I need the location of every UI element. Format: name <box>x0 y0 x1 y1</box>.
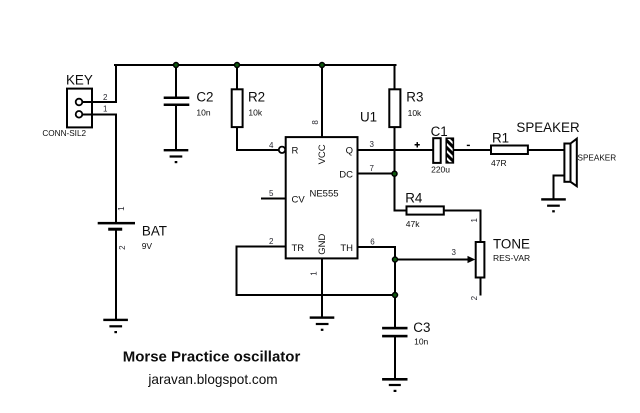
wire BAT to ground <box>115 230 117 319</box>
svg-text:1: 1 <box>103 105 108 114</box>
wire top rail <box>115 64 396 66</box>
node wiper <box>393 257 398 262</box>
svg-text:TR: TR <box>292 243 305 254</box>
wire speaker to ground <box>554 175 565 198</box>
svg-text:NE555: NE555 <box>309 189 338 200</box>
svg-text:TH: TH <box>340 243 353 254</box>
svg-text:2: 2 <box>470 295 479 300</box>
svg-text:KEY: KEY <box>66 72 93 87</box>
pin 4 inversion bubble <box>279 147 285 153</box>
svg-text:jaravan.blogspot.com: jaravan.blogspot.com <box>147 372 277 387</box>
svg-text:10n: 10n <box>414 337 428 347</box>
svg-text:8: 8 <box>311 120 320 125</box>
svg-text:1: 1 <box>470 218 479 223</box>
wire KEY pin 2 lead <box>83 101 117 103</box>
wire rail to R2 top <box>236 65 238 90</box>
wire R4 to TONE top <box>444 211 481 243</box>
wire C2 bottom to ground <box>175 105 177 150</box>
wire KEY pin2 riser to top rail <box>115 65 117 102</box>
resistor R2 <box>232 89 265 127</box>
svg-text:6: 6 <box>370 237 375 246</box>
svg-text:R4: R4 <box>405 191 423 206</box>
svg-text:Q: Q <box>346 146 353 157</box>
wire pin 6 down to C3 <box>358 247 396 327</box>
svg-text:CONN-SIL2: CONN-SIL2 <box>42 129 86 138</box>
svg-text:U1: U1 <box>360 109 377 124</box>
node C2/rail <box>174 63 179 68</box>
svg-text:SPEAKER: SPEAKER <box>516 120 580 135</box>
svg-text:3: 3 <box>370 140 375 149</box>
wire KEY pin1 to BAT <box>115 114 117 222</box>
wire rail to C2 top <box>175 65 177 97</box>
svg-text:TONE: TONE <box>493 237 530 252</box>
svg-text:7: 7 <box>370 164 375 173</box>
svg-text:C1: C1 <box>431 124 448 139</box>
battery BAT <box>98 206 167 251</box>
svg-text:C3: C3 <box>413 320 430 335</box>
svg-text:CV: CV <box>292 195 306 206</box>
svg-text:2: 2 <box>269 237 274 246</box>
ground (C2) <box>164 149 189 163</box>
ground (speaker) <box>541 198 566 212</box>
svg-text:3: 3 <box>452 248 457 257</box>
svg-text:47R: 47R <box>491 158 507 168</box>
wire R2 bottom to pin 4 <box>237 127 279 150</box>
ground (IC pin 1) <box>310 316 335 331</box>
wire pin 1 GND drop <box>321 259 323 317</box>
svg-text:9V: 9V <box>142 241 153 251</box>
connector KEY <box>42 72 116 138</box>
svg-text:C2: C2 <box>196 90 213 105</box>
node TR/TH/C3 <box>393 293 398 298</box>
node pin7/R3/R4 <box>392 171 397 176</box>
svg-text:VCC: VCC <box>317 144 328 164</box>
svg-text:10k: 10k <box>408 108 422 118</box>
node VCC/rail <box>320 63 325 68</box>
resistor R3 <box>389 89 423 127</box>
svg-text:Morse Practice oscillator: Morse Practice oscillator <box>123 349 301 366</box>
capacitor C2 <box>164 90 214 118</box>
capacitor C3 <box>382 320 430 347</box>
node junction dots <box>174 63 398 298</box>
resistor R1 <box>491 131 528 169</box>
svg-text:10n: 10n <box>196 108 210 118</box>
wire C1 to R1 <box>453 149 491 151</box>
wire R3 bottom to pin7 node and R4 <box>395 127 407 211</box>
svg-text:1: 1 <box>309 271 318 276</box>
wire TR loop pin 2 <box>237 247 396 296</box>
svg-text:GND: GND <box>317 234 328 255</box>
svg-text:SPEAKER: SPEAKER <box>578 153 617 162</box>
svg-text:2: 2 <box>118 245 127 250</box>
speaker symbol <box>516 120 616 186</box>
potentiometer TONE <box>452 218 531 301</box>
svg-text:47k: 47k <box>406 219 420 229</box>
wire TONE pin2 stub <box>479 278 481 295</box>
ground (C3) <box>382 378 407 392</box>
svg-text:R3: R3 <box>406 90 423 105</box>
wire C3 bottom to ground <box>394 338 396 379</box>
svg-text:R: R <box>292 146 299 157</box>
svg-text:BAT: BAT <box>142 223 167 238</box>
resistor R4 <box>405 191 444 230</box>
wire wiper arrow line <box>395 259 469 261</box>
svg-text:5: 5 <box>269 189 274 198</box>
svg-text:4: 4 <box>269 141 274 150</box>
op-amp U1 NE555 body <box>269 109 377 275</box>
node R2/rail <box>235 63 240 68</box>
wire pin 7 to node <box>358 173 395 175</box>
svg-text:RES-VAR: RES-VAR <box>493 253 530 263</box>
wire VCC riser to pin 8 <box>321 65 323 138</box>
svg-text:10k: 10k <box>248 108 262 118</box>
wire R1 to speaker <box>528 149 565 151</box>
wire pin 3 to C1 <box>358 149 434 151</box>
svg-text:R1: R1 <box>492 131 509 146</box>
svg-text:1: 1 <box>117 206 126 211</box>
wiper arrowhead <box>468 256 476 263</box>
capacitor C1 polarized <box>415 124 470 175</box>
wire rail drop to R3 <box>394 65 396 90</box>
wire pin 5 stub <box>262 197 286 199</box>
svg-text:R2: R2 <box>248 90 265 105</box>
svg-text:220u: 220u <box>431 164 450 174</box>
svg-text:2: 2 <box>103 93 108 102</box>
wire KEY pin 1 lead <box>83 113 117 115</box>
ground (BAT) <box>103 319 128 334</box>
svg-text:DC: DC <box>339 170 353 181</box>
